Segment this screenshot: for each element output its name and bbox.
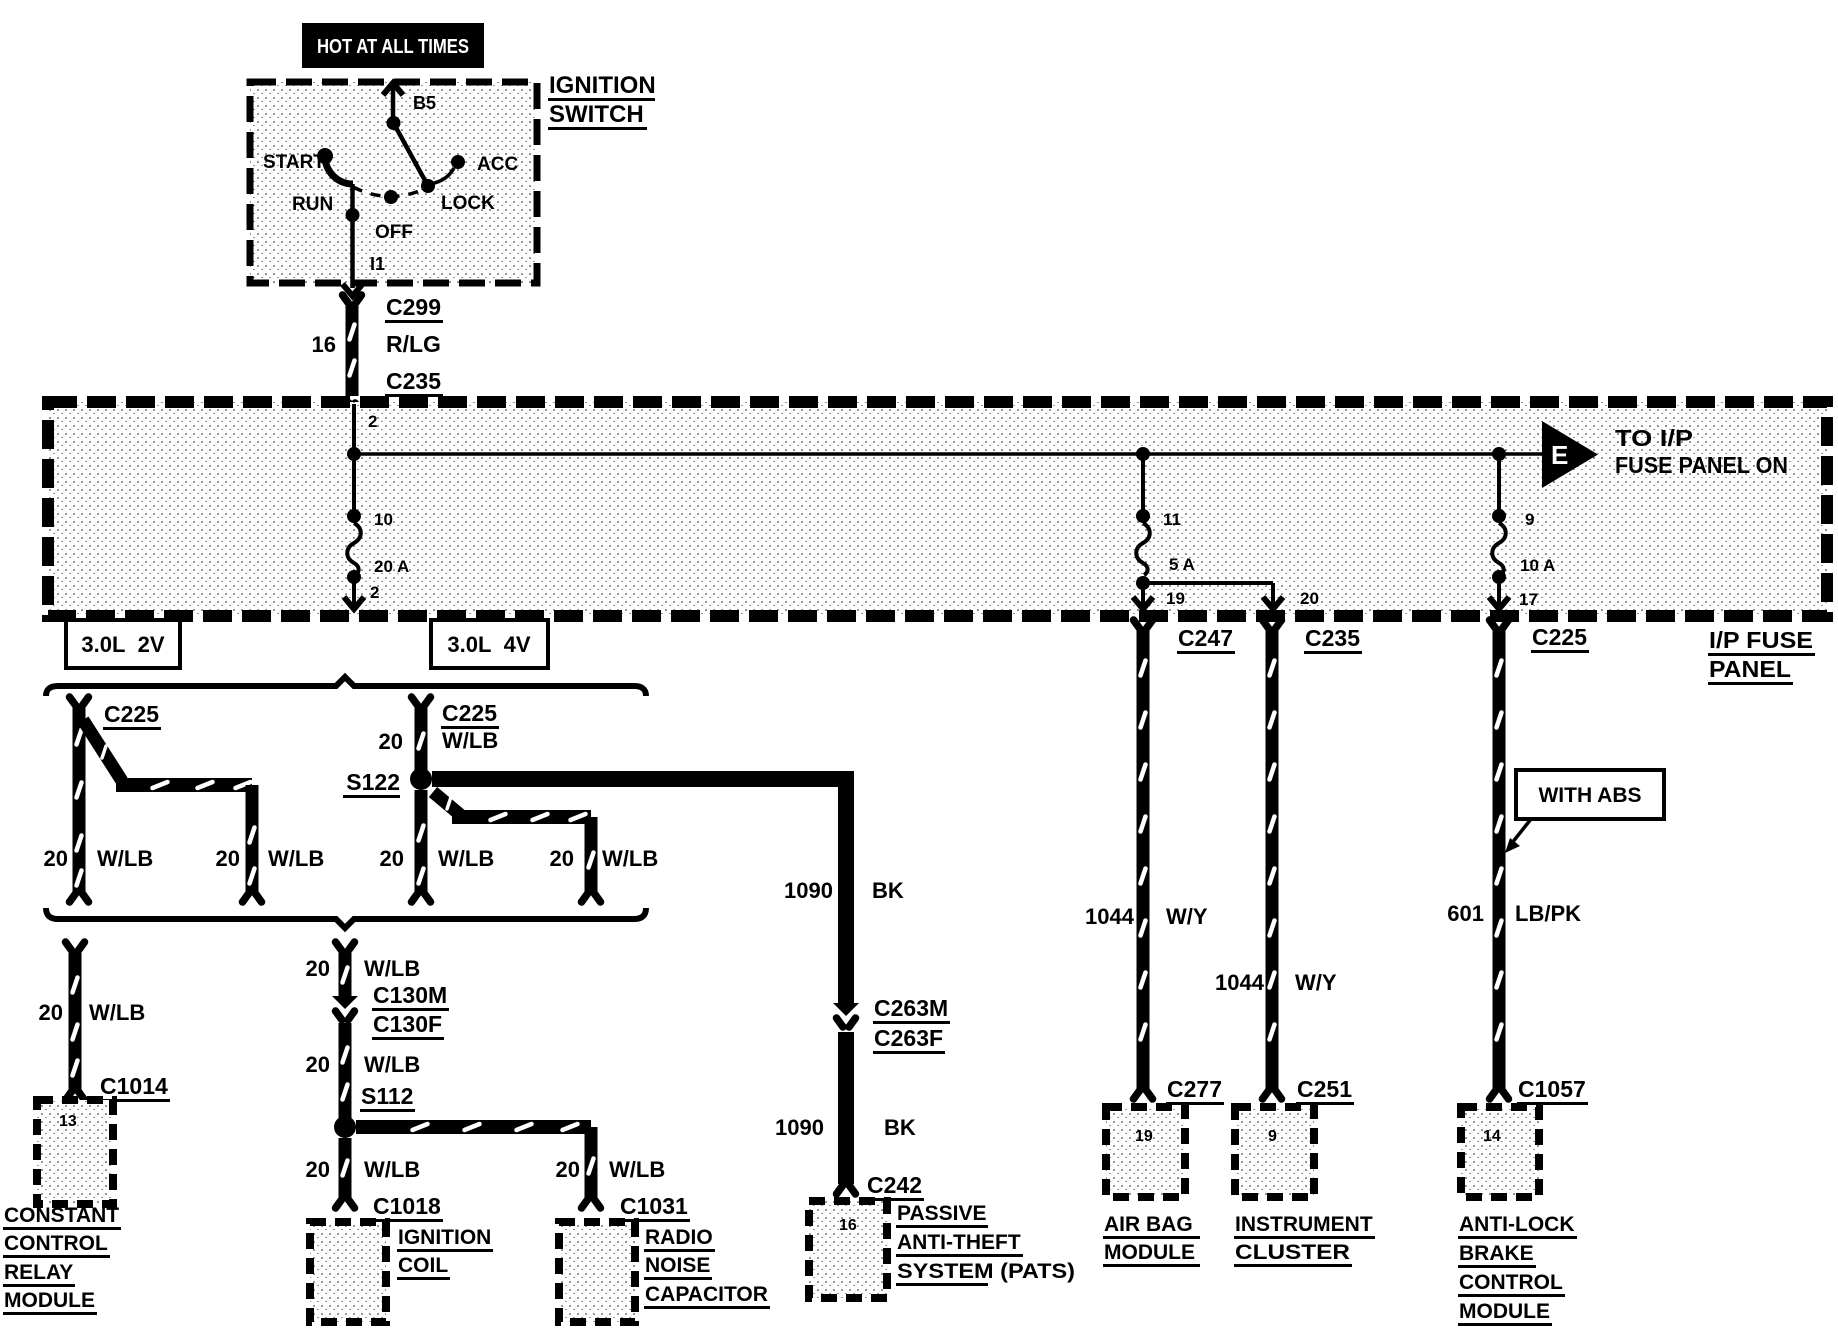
svg-text:FUSE PANEL ON: FUSE PANEL ON <box>1615 452 1788 478</box>
svg-text:PANEL: PANEL <box>1709 656 1791 682</box>
connector C130M/C130F <box>332 982 449 1040</box>
svg-text:20: 20 <box>1300 589 1319 608</box>
svg-text:NOISE: NOISE <box>645 1254 710 1277</box>
svg-text:C251: C251 <box>1297 1076 1352 1102</box>
anti-lock brake control module label <box>1458 1213 1577 1326</box>
air bag module box <box>1106 1107 1185 1197</box>
svg-text:20: 20 <box>44 846 68 871</box>
svg-text:C263F: C263F <box>874 1025 943 1051</box>
fuse 10A leg <box>1489 454 1555 609</box>
svg-text:W/LB: W/LB <box>89 1000 145 1025</box>
svg-text:20: 20 <box>379 729 403 754</box>
svg-text:INSTRUMENT: INSTRUMENT <box>1235 1213 1373 1236</box>
contact dot OFF <box>384 190 398 204</box>
wire W/LB to C1018 <box>336 1138 355 1208</box>
svg-text:W/LB: W/LB <box>97 846 153 871</box>
wire W/LB left branch <box>83 720 262 902</box>
ignition switch title <box>548 72 656 130</box>
svg-text:1090: 1090 <box>784 878 833 903</box>
bus wire to E arrow <box>354 452 1545 456</box>
svg-text:C225: C225 <box>442 700 497 726</box>
svg-text:W/LB: W/LB <box>364 1052 420 1077</box>
hot at all times label <box>302 23 484 68</box>
fuse 5A leg <box>1133 454 1319 609</box>
svg-text:W/Y: W/Y <box>1166 904 1208 929</box>
svg-text:RELAY: RELAY <box>4 1261 73 1284</box>
ignition coil label <box>397 1226 493 1280</box>
instrument cluster box <box>1235 1107 1314 1197</box>
svg-text:9: 9 <box>1525 510 1534 529</box>
splice S122 <box>343 768 432 798</box>
svg-text:20: 20 <box>39 1000 63 1025</box>
svg-text:11: 11 <box>1163 510 1181 529</box>
dashed detent arc <box>353 187 428 197</box>
wire W/LB right C225 <box>412 697 431 770</box>
wire W/LB to C130 <box>336 942 355 996</box>
svg-text:CONTROL: CONTROL <box>4 1232 108 1255</box>
svg-text:ANTI-LOCK: ANTI-LOCK <box>1459 1213 1574 1236</box>
svg-text:16: 16 <box>839 1217 857 1234</box>
wire 16 R/LG from ignition switch <box>343 295 362 412</box>
junction dot bus mid <box>1136 447 1150 461</box>
svg-text:START: START <box>263 152 325 173</box>
svg-text:R/LG: R/LG <box>386 331 441 357</box>
svg-text:20: 20 <box>550 846 574 871</box>
ignition switch box <box>250 82 537 283</box>
wire W/LB below S122 <box>412 790 431 902</box>
svg-text:MODULE: MODULE <box>1459 1300 1550 1323</box>
engine variant box 3.0L 2V <box>66 620 180 668</box>
svg-text:I/P FUSE: I/P FUSE <box>1709 627 1813 653</box>
wire BK 1090 from S122 <box>432 779 846 1003</box>
contact dot LOCK <box>421 179 435 193</box>
svg-text:2: 2 <box>370 583 379 602</box>
svg-text:601: 601 <box>1447 901 1484 926</box>
svg-text:C1057: C1057 <box>1518 1076 1586 1102</box>
PATS module box <box>809 1201 887 1298</box>
arc LOCK to ACC <box>430 168 454 184</box>
svg-text:10 A: 10 A <box>1520 556 1555 575</box>
svg-text:W/LB: W/LB <box>442 728 498 753</box>
svg-text:IGNITION: IGNITION <box>549 72 656 99</box>
svg-text:14: 14 <box>1483 1128 1501 1145</box>
svg-text:SYSTEM (PATS): SYSTEM (PATS) <box>897 1260 1075 1283</box>
splice S112 <box>334 1083 415 1138</box>
svg-text:SWITCH: SWITCH <box>549 101 644 128</box>
svg-text:C263M: C263M <box>874 995 948 1021</box>
wire W/Y 1044 to air bag module <box>1134 620 1153 1099</box>
anti-lock brake control module box <box>1461 1107 1539 1197</box>
brace bottom <box>46 908 646 928</box>
svg-text:C235: C235 <box>1305 625 1360 651</box>
svg-text:PASSIVE: PASSIVE <box>897 1202 986 1225</box>
wire LB/PK 601 to ABS module <box>1490 620 1509 1099</box>
fuse 20A leg <box>344 454 409 609</box>
I/P fuse panel title <box>1708 627 1815 685</box>
svg-text:3.0L 4V: 3.0L 4V <box>447 632 530 657</box>
svg-text:OFF: OFF <box>375 222 413 243</box>
svg-text:ANTI-THEFT: ANTI-THEFT <box>897 1231 1021 1254</box>
svg-text:C225: C225 <box>104 701 159 727</box>
radio noise capacitor box <box>559 1222 635 1322</box>
svg-text:MODULE: MODULE <box>4 1289 95 1312</box>
engine variant box 3.0L 4V <box>431 620 548 668</box>
svg-text:I1: I1 <box>370 254 385 274</box>
I/P fuse panel box <box>48 402 1827 616</box>
svg-text:19: 19 <box>1166 589 1185 608</box>
air bag module label <box>1103 1213 1200 1267</box>
svg-text:C235: C235 <box>386 368 441 394</box>
junction dot bus left <box>347 447 361 461</box>
svg-text:WITH ABS: WITH ABS <box>1538 784 1641 807</box>
svg-text:HOT AT ALL TIMES: HOT AT ALL TIMES <box>317 36 469 58</box>
svg-text:LB/PK: LB/PK <box>1515 901 1581 926</box>
svg-text:E: E <box>1551 440 1568 470</box>
svg-text:10: 10 <box>374 510 393 529</box>
svg-text:RUN: RUN <box>292 194 333 215</box>
svg-text:C1014: C1014 <box>100 1073 168 1099</box>
constant control relay module box <box>37 1100 113 1204</box>
svg-text:W/LB: W/LB <box>364 956 420 981</box>
svg-text:20: 20 <box>306 1052 330 1077</box>
svg-text:BK: BK <box>884 1115 916 1140</box>
svg-text:5 A: 5 A <box>1169 555 1195 574</box>
svg-text:ACC: ACC <box>477 154 518 175</box>
svg-text:2: 2 <box>368 412 377 431</box>
svg-text:C130F: C130F <box>373 1011 442 1037</box>
svg-text:MODULE: MODULE <box>1104 1241 1195 1264</box>
PATS module label <box>896 1202 1075 1286</box>
svg-text:COIL: COIL <box>398 1254 448 1277</box>
svg-text:13: 13 <box>59 1113 77 1130</box>
terminal B5 arrow <box>383 83 436 120</box>
connector C263M/C263F <box>833 995 950 1054</box>
arrow E to I/P fuse panel on <box>1542 421 1788 488</box>
svg-text:B5: B5 <box>413 93 436 113</box>
svg-text:C247: C247 <box>1178 625 1233 651</box>
brace top <box>46 677 646 696</box>
wire W/LB S112 to C1031 <box>356 1124 601 1208</box>
wire W/LB to C1014 <box>66 942 85 1100</box>
svg-text:1044: 1044 <box>1085 904 1135 929</box>
svg-text:C299: C299 <box>386 294 441 320</box>
svg-text:C277: C277 <box>1167 1076 1222 1102</box>
switch wiper arc START-RUN <box>325 156 353 184</box>
svg-text:W/LB: W/LB <box>364 1157 420 1182</box>
svg-text:TO I/P: TO I/P <box>1615 425 1693 451</box>
svg-text:CLUSTER: CLUSTER <box>1235 1241 1350 1264</box>
svg-text:BRAKE: BRAKE <box>1459 1242 1534 1265</box>
wire W/LB right branch <box>433 792 601 902</box>
svg-text:S122: S122 <box>346 769 400 795</box>
svg-text:IGNITION: IGNITION <box>398 1226 491 1249</box>
svg-text:9: 9 <box>1268 1128 1277 1145</box>
svg-text:C242: C242 <box>867 1172 922 1198</box>
junction dot bus right <box>1492 447 1506 461</box>
panel entry pin 2 <box>354 404 377 454</box>
svg-text:C1031: C1031 <box>620 1193 688 1219</box>
svg-text:BK: BK <box>872 878 904 903</box>
svg-text:20: 20 <box>216 846 240 871</box>
contact dot ACC <box>451 155 465 169</box>
svg-text:20: 20 <box>556 1157 580 1182</box>
wire W/LB left C225 <box>70 697 89 902</box>
svg-text:C225: C225 <box>1532 624 1587 650</box>
svg-text:1090: 1090 <box>775 1115 824 1140</box>
switch output wire I1 <box>343 184 386 296</box>
svg-text:W/Y: W/Y <box>1295 970 1337 995</box>
constant control relay module label <box>3 1204 121 1315</box>
svg-text:C1018: C1018 <box>373 1193 441 1219</box>
svg-text:AIR BAG: AIR BAG <box>1104 1213 1193 1236</box>
svg-text:CONTROL: CONTROL <box>1459 1271 1563 1294</box>
svg-text:W/LB: W/LB <box>609 1157 665 1182</box>
svg-text:19: 19 <box>1135 1128 1153 1145</box>
svg-text:20: 20 <box>306 956 330 981</box>
svg-text:20 A: 20 A <box>374 557 409 576</box>
wire W/Y 1044 to instrument cluster <box>1263 620 1282 1099</box>
contact dot B5 <box>387 116 401 130</box>
svg-text:W/LB: W/LB <box>602 846 658 871</box>
svg-text:1044: 1044 <box>1215 970 1265 995</box>
svg-text:W/LB: W/LB <box>268 846 324 871</box>
svg-text:20: 20 <box>306 1157 330 1182</box>
switch arm B5 to LOCK <box>394 123 429 186</box>
ignition coil box <box>310 1222 386 1322</box>
wire BK 1090 lower <box>837 1032 856 1194</box>
svg-text:W/LB: W/LB <box>438 846 494 871</box>
svg-text:CONSTANT: CONSTANT <box>4 1204 119 1227</box>
wire W/LB to S112 <box>343 1023 348 1118</box>
svg-text:S112: S112 <box>361 1083 413 1109</box>
with ABS callout <box>1505 770 1664 853</box>
contact dot START <box>317 148 333 164</box>
svg-text:16: 16 <box>312 332 336 357</box>
instrument cluster label <box>1234 1213 1375 1267</box>
radio noise capacitor label <box>644 1226 770 1309</box>
svg-text:CAPACITOR: CAPACITOR <box>645 1283 768 1306</box>
svg-text:RADIO: RADIO <box>645 1226 713 1249</box>
svg-text:C130M: C130M <box>373 982 447 1008</box>
svg-text:20: 20 <box>380 846 404 871</box>
svg-text:LOCK: LOCK <box>441 193 495 214</box>
svg-text:3.0L 2V: 3.0L 2V <box>81 632 164 657</box>
svg-text:17: 17 <box>1519 590 1538 609</box>
